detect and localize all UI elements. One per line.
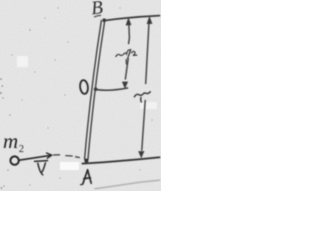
wire: ground/base line at A — [83, 157, 160, 163]
label v (letter v) — [38, 163, 46, 173]
arrowhead down (l/2 bottom) — [122, 82, 128, 89]
label v-bar (overbar) — [35, 160, 48, 163]
paper background — [0, 0, 161, 191]
white correction patch near A (bottom-left of A) — [60, 162, 79, 170]
label v tail — [41, 173, 43, 175]
arrowhead up (l top) — [147, 17, 152, 24]
white correction patch below length label — [140, 102, 157, 109]
svg-text:m: m — [3, 129, 18, 153]
mass m2 ball — [10, 156, 18, 164]
dimension line l/2 (lower segment) — [125, 59, 128, 80]
dimension line l (lower segment) — [142, 101, 145, 151]
dimension line l/2 (upper segment) — [128, 23, 131, 44]
rod bottom cap at A — [85, 159, 88, 161]
stray specks left edge — [0, 8, 153, 189]
scan noise — [0, 0, 161, 191]
velocity arrowhead — [47, 153, 52, 158]
arrowhead down (l bottom) — [139, 151, 145, 158]
value label l/2 (cursive squiggle) — [116, 50, 137, 65]
rod bottom junction blob at A — [84, 159, 88, 163]
dashed trajectory line toward A — [54, 155, 80, 158]
dimension line l (upper segment) — [146, 24, 149, 84]
wire: top horizontal line from B to right — [104, 16, 160, 21]
B tail tick — [95, 15, 101, 16]
rod AB (right stroke) — [88, 20, 105, 159]
velocity arrow shaft — [19, 155, 51, 160]
rod AB (left stroke) — [85, 20, 102, 158]
white correction patch upper-left — [17, 56, 28, 67]
value label l (cursive squiggle) — [134, 92, 150, 102]
rod top junction — [102, 18, 106, 22]
arrowhead up (l/2 top) — [126, 18, 131, 25]
label O (pivot point) — [79, 80, 88, 95]
wire: short horizontal line at O level — [96, 88, 128, 90]
svg-text:2: 2 — [19, 144, 24, 155]
faint stray diagonal stroke bottom-right — [95, 180, 160, 189]
label A (bottom end of rod) — [81, 170, 92, 185]
node: junction blob at O on rod — [94, 87, 98, 91]
